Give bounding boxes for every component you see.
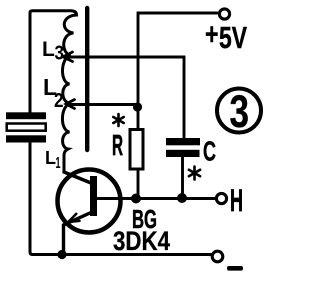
svg-text:H: H [230,182,243,218]
svg-text:L: L [45,148,56,168]
svg-text:C: C [203,136,216,167]
svg-text:3: 3 [55,43,65,65]
svg-text:2: 2 [54,90,64,112]
svg-text:3DK4: 3DK4 [113,226,170,256]
svg-text:+: + [205,17,219,52]
svg-text:1: 1 [56,155,61,172]
svg-text:5V: 5V [219,20,247,55]
svg-text:L: L [42,38,55,61]
svg-text:3: 3 [230,86,250,137]
svg-text:R: R [112,130,123,162]
